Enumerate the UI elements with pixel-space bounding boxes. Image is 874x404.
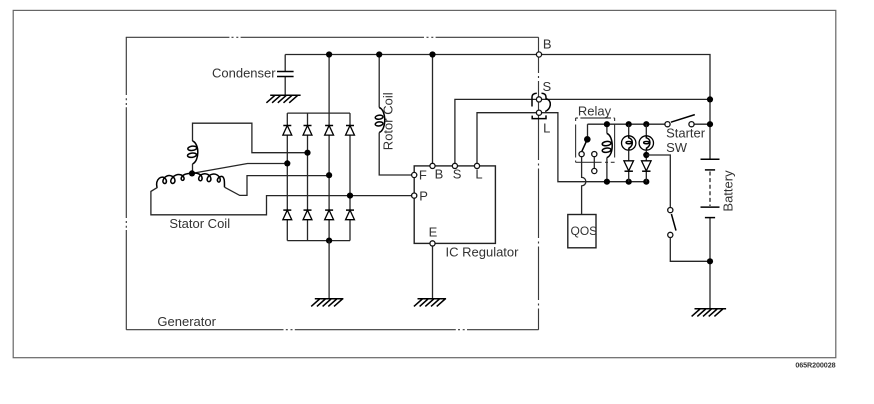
relay dashed box <box>576 118 615 162</box>
wire: stator left end to bottom rail to P <box>151 187 412 215</box>
junction dots on top bus <box>326 51 332 57</box>
starter switch upper contacts <box>665 122 670 127</box>
terminal S (regulator) <box>452 163 457 168</box>
diode D5 <box>283 210 292 220</box>
generator L terminal plug <box>536 110 541 115</box>
node star point <box>189 170 195 176</box>
terminal P <box>412 193 417 198</box>
generator S terminal plug <box>536 97 541 102</box>
wire: rotor coil to F terminal <box>379 133 411 176</box>
terminal F <box>412 172 417 177</box>
relay fixed contact (to QOS) <box>579 152 584 157</box>
star node to bridge column1 <box>192 164 287 174</box>
stator right winding <box>192 173 225 187</box>
wire: bridge feed stem <box>328 55 330 114</box>
bridge phase tap junctions <box>284 160 290 166</box>
diode D1 <box>283 126 292 136</box>
svg-text:065R200028: 065R200028 <box>795 361 835 370</box>
battery BT1 <box>701 159 720 217</box>
svg-text:F: F <box>419 168 427 183</box>
svg-text:Relay: Relay <box>578 104 612 119</box>
svg-text:L: L <box>543 121 550 136</box>
left edge <box>125 37 127 329</box>
condenser C <box>284 55 286 96</box>
rotor coil stem upper <box>378 55 380 108</box>
bottom edge <box>126 329 538 331</box>
wire: B terminal stem <box>432 55 434 164</box>
svg-text:SW: SW <box>666 140 688 155</box>
svg-text:Rotor Coil: Rotor Coil <box>380 92 395 150</box>
bridge column 1 <box>286 113 288 241</box>
junction dots on battery bus <box>707 96 713 102</box>
stator coil top winding <box>187 141 198 164</box>
ground (condenser) <box>266 95 300 103</box>
relay moving contact <box>584 136 591 143</box>
wire: S terminal to S plug <box>455 99 537 163</box>
lower switch contacts <box>668 208 673 213</box>
svg-text:Condenser: Condenser <box>212 65 276 80</box>
wire: bridge to ground <box>328 241 330 299</box>
relay top rail <box>588 123 711 125</box>
rotor coil L1 <box>375 108 385 133</box>
lamp down wires <box>628 150 630 182</box>
bridge column 2 <box>307 113 309 241</box>
wire: battery bottom to ground <box>709 218 711 309</box>
svg-text:B: B <box>543 36 552 51</box>
diode D2 <box>303 126 312 136</box>
top edge <box>126 36 539 38</box>
wire: L terminal to L plug <box>477 113 536 164</box>
rectifier bridge frame <box>287 113 350 241</box>
diode D6 <box>303 210 312 220</box>
svg-text:L: L <box>475 167 482 182</box>
diode D7 <box>325 210 334 220</box>
ground (battery) <box>692 309 727 317</box>
diode D8 <box>346 210 355 220</box>
svg-text:QOS: QOS <box>571 224 598 238</box>
stator coil top phase wire <box>193 123 308 153</box>
svg-text:Battery: Battery <box>721 170 736 212</box>
bridge column 3 <box>328 113 330 241</box>
charge lamp stems <box>629 124 647 136</box>
relay fixed contact (open) <box>592 152 597 157</box>
right edge <box>538 37 540 329</box>
svg-text:P: P <box>419 188 428 203</box>
terminal E <box>430 241 435 246</box>
bridge column 4 <box>349 113 351 241</box>
wire: main top bus (condenser to B terminal) <box>285 54 536 56</box>
wire: stator right end to bridge column3 <box>225 176 330 196</box>
wire: B terminal to top-right corner down to battery <box>542 55 710 160</box>
svg-text:Stator Coil: Stator Coil <box>169 216 230 231</box>
svg-text:Generator: Generator <box>157 314 216 329</box>
diode D3 <box>325 126 334 136</box>
lamp 1 <box>622 136 636 150</box>
svg-text:S: S <box>453 167 462 182</box>
terminal L (regulator) <box>474 163 479 168</box>
IC regulator box U1 <box>414 166 495 244</box>
svg-text:E: E <box>429 225 438 240</box>
wire: L plug down to relay bottom rail <box>542 113 647 182</box>
svg-text:Starter: Starter <box>666 125 706 140</box>
wire: QOS feed with hop over rail <box>582 157 586 215</box>
diode D4 <box>346 126 355 136</box>
diode D9 (under lamp1) <box>624 161 634 171</box>
svg-text:S: S <box>543 79 552 94</box>
relay contact arm stem <box>587 124 589 136</box>
junction: lamp2 branch <box>643 152 649 158</box>
wire: S plug to battery bus <box>542 98 710 100</box>
generator B terminal plug <box>536 52 541 57</box>
terminal B (regulator) <box>430 163 435 168</box>
junction dots lamp rail <box>626 121 632 127</box>
relay coil <box>606 124 608 182</box>
ground (IC regulator E) <box>414 299 446 307</box>
generator boundary (dash-dot box) <box>126 37 539 329</box>
QOS unit box <box>568 215 596 248</box>
ground (bridge) <box>311 299 343 307</box>
connector bracket around S/L plug <box>532 93 550 118</box>
svg-text:IC Regulator: IC Regulator <box>446 245 520 260</box>
junction dots relay rails <box>604 121 610 127</box>
starter switch blade <box>671 115 695 123</box>
wire: lamp2 branch to key switch lower <box>646 155 670 208</box>
svg-text:B: B <box>435 167 444 182</box>
lamp 2 <box>639 136 653 150</box>
lower switch blade <box>671 214 676 231</box>
diode D10 (under lamp2) <box>642 161 652 171</box>
wire: lower switch to battery negative lead <box>670 238 710 262</box>
wire: E to ground <box>432 246 434 299</box>
stator left winding <box>157 173 192 187</box>
